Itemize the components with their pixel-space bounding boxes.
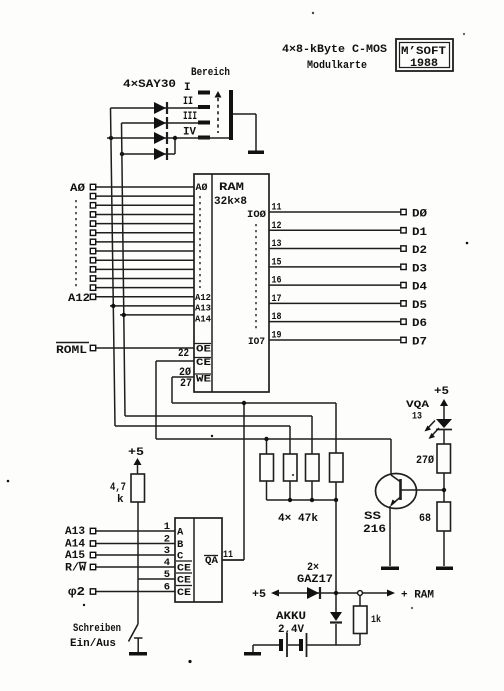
svg-text:27Ø: 27Ø xyxy=(416,455,434,467)
svg-text:I: I xyxy=(184,82,191,94)
svg-text:1k: 1k xyxy=(371,614,381,626)
svg-text:11: 11 xyxy=(272,203,282,214)
svg-text:A14: A14 xyxy=(65,539,85,551)
svg-text:+5: +5 xyxy=(252,589,266,601)
svg-text:GAZ17: GAZ17 xyxy=(297,574,333,586)
svg-text:WE: WE xyxy=(196,374,211,386)
svg-text:+5: +5 xyxy=(434,386,449,398)
svg-text:4×8-kByte C-MOS: 4×8-kByte C-MOS xyxy=(282,44,387,56)
svg-text:D6: D6 xyxy=(412,318,427,330)
svg-text:ROML: ROML xyxy=(56,345,87,357)
svg-text:IO7: IO7 xyxy=(248,337,265,348)
svg-text:φ2: φ2 xyxy=(68,585,85,599)
svg-text:D2: D2 xyxy=(412,245,427,257)
svg-text:RAM: RAM xyxy=(219,182,244,194)
svg-text:4× 47k: 4× 47k xyxy=(278,513,318,525)
svg-text:AØ: AØ xyxy=(70,183,85,195)
svg-text:13: 13 xyxy=(412,411,422,423)
svg-text:A13: A13 xyxy=(195,303,211,314)
svg-text:D4: D4 xyxy=(412,282,427,294)
svg-text:DØ: DØ xyxy=(412,209,427,221)
svg-text:M’SOFT: M’SOFT xyxy=(401,46,446,58)
svg-text:D1: D1 xyxy=(412,227,427,239)
svg-text:+5: +5 xyxy=(128,447,144,459)
svg-text:Schreiben: Schreiben xyxy=(73,623,121,635)
svg-text:A12: A12 xyxy=(68,293,90,305)
svg-text:16: 16 xyxy=(272,276,282,287)
svg-text:D7: D7 xyxy=(412,336,427,348)
svg-text:216: 216 xyxy=(363,524,386,536)
svg-text:13: 13 xyxy=(272,239,282,250)
svg-text:OE: OE xyxy=(196,344,211,356)
svg-text:R/W: R/W xyxy=(65,563,86,575)
svg-text:Ein/Aus: Ein/Aus xyxy=(70,638,116,650)
svg-text:A: A xyxy=(177,527,184,539)
svg-text:11: 11 xyxy=(223,550,233,561)
svg-text:19: 19 xyxy=(272,330,282,341)
svg-text:Bereich: Bereich xyxy=(191,67,230,79)
svg-text:CE: CE xyxy=(177,587,191,599)
svg-text:Modulkarte: Modulkarte xyxy=(307,60,367,72)
svg-text:II: II xyxy=(183,96,193,108)
svg-text:2×: 2× xyxy=(307,562,319,574)
svg-text:D3: D3 xyxy=(412,263,427,275)
svg-text:III: III xyxy=(183,111,197,123)
svg-text:A15: A15 xyxy=(65,550,85,562)
svg-text:32k×8: 32k×8 xyxy=(214,196,247,208)
svg-text:22: 22 xyxy=(178,348,189,360)
svg-text:CE: CE xyxy=(196,357,211,369)
svg-text:12: 12 xyxy=(272,221,282,232)
svg-text:AKKU: AKKU xyxy=(276,611,306,623)
svg-text:A13: A13 xyxy=(65,526,85,538)
svg-text:1988: 1988 xyxy=(410,58,438,70)
svg-text:17: 17 xyxy=(272,294,282,305)
svg-text:18: 18 xyxy=(272,312,282,323)
svg-text:SS: SS xyxy=(364,511,382,523)
svg-text:B: B xyxy=(177,539,184,551)
svg-text:QA: QA xyxy=(205,555,219,567)
svg-text:2,4V: 2,4V xyxy=(278,624,304,636)
svg-text:CE: CE xyxy=(177,575,191,587)
svg-text:+ RAM: + RAM xyxy=(401,590,434,602)
svg-text:IOØ: IOØ xyxy=(247,209,266,221)
svg-text:27: 27 xyxy=(180,378,192,390)
svg-text:AØ: AØ xyxy=(196,182,208,194)
svg-text:4×SAY30: 4×SAY30 xyxy=(123,79,176,91)
svg-text:A12: A12 xyxy=(195,292,211,303)
svg-text:IV: IV xyxy=(183,127,196,139)
svg-text:15: 15 xyxy=(272,257,282,268)
svg-text:4,7: 4,7 xyxy=(110,482,126,494)
svg-text:D5: D5 xyxy=(412,300,427,312)
svg-text:68: 68 xyxy=(419,513,431,525)
svg-text:k: k xyxy=(117,494,124,506)
svg-text:VQA: VQA xyxy=(406,399,430,411)
svg-text:A14: A14 xyxy=(195,314,211,325)
